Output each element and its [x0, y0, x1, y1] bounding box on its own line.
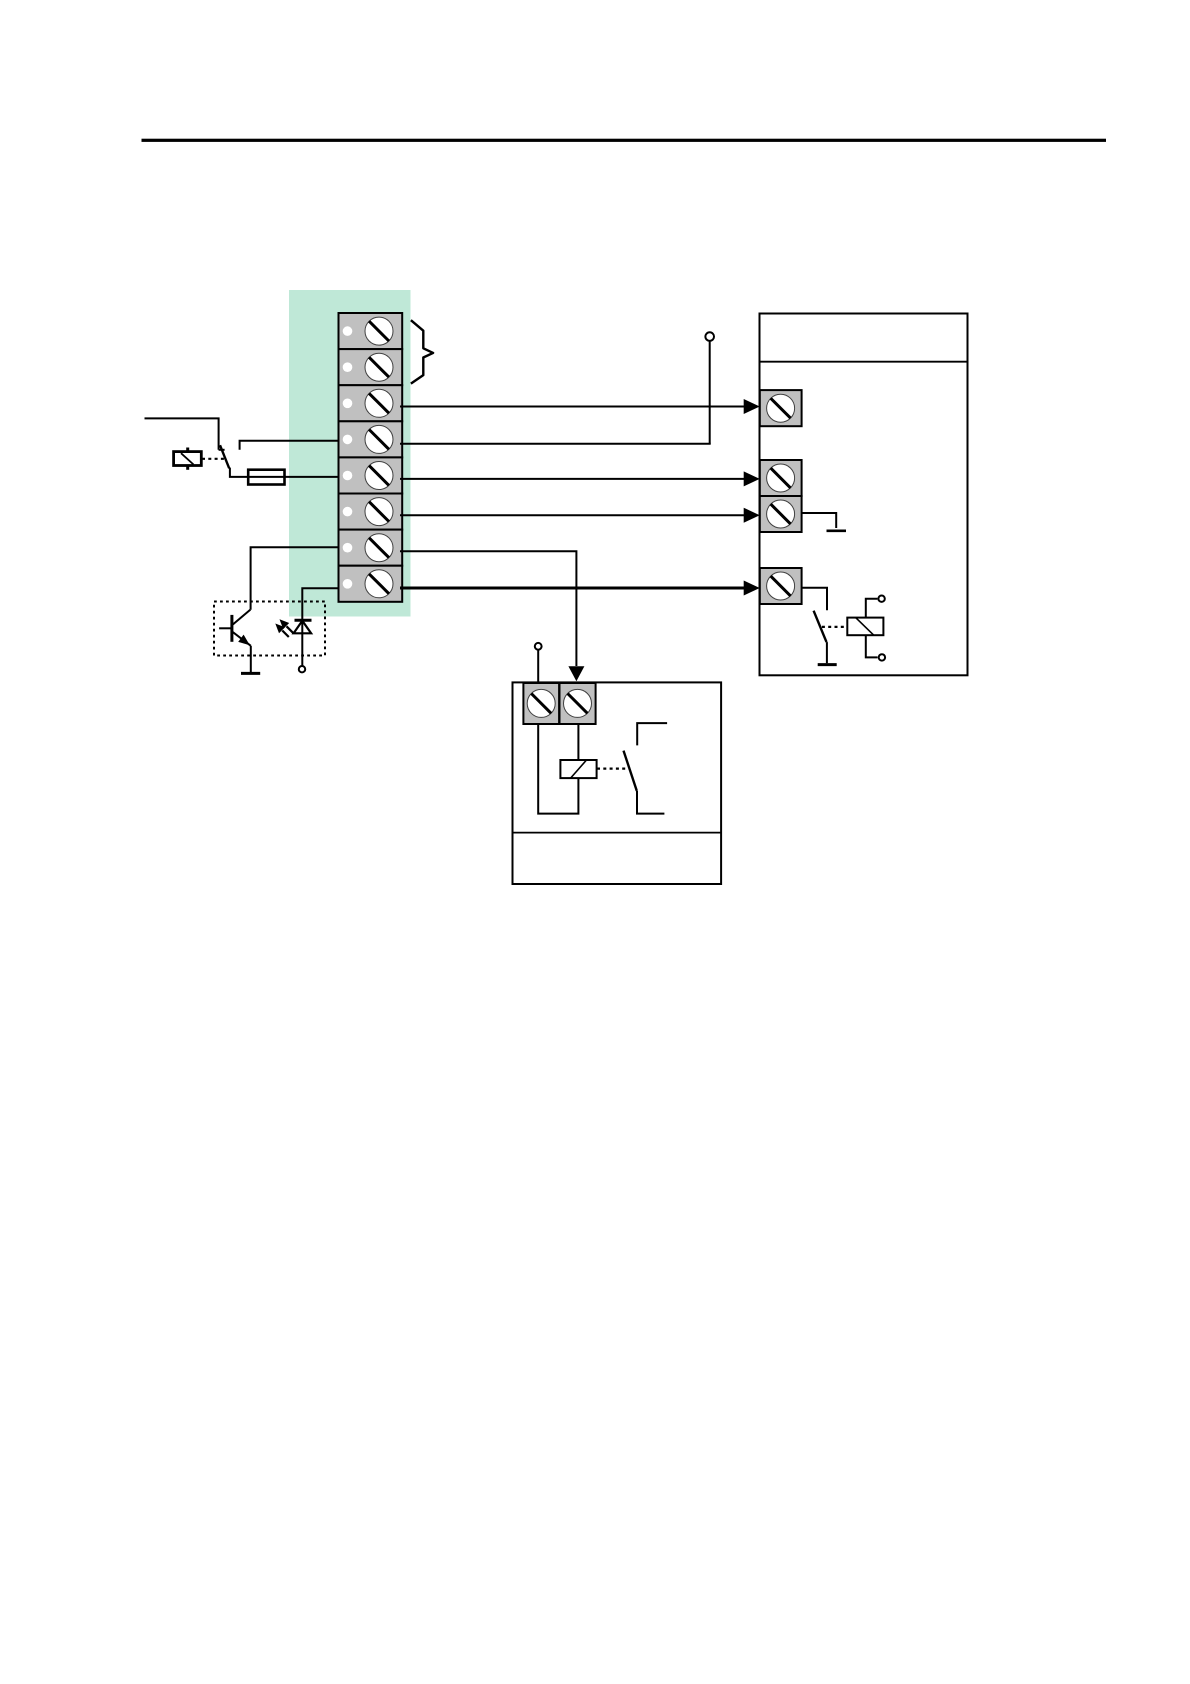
wire: K2 top to node	[866, 599, 878, 618]
wire: emitter to ground	[250, 646, 252, 673]
relay coil K1 ticks	[186, 448, 189, 452]
green highlight zone	[289, 290, 411, 617]
arrow into B2	[744, 471, 760, 486]
terminal 4 screw	[343, 425, 393, 453]
wire: terminal 6 to device terminal B3	[400, 514, 744, 516]
device terminal B2	[760, 460, 802, 496]
node: open terminal above device	[705, 332, 714, 341]
optocoupler dotted box	[214, 602, 325, 656]
device box (right)	[760, 314, 968, 676]
wire: switch S1 to fuse F1 to terminal 5	[230, 468, 340, 477]
relay contact top lead	[637, 723, 667, 745]
brace for terminals 1-2	[411, 320, 433, 383]
dotted link S2 to relay K2	[822, 626, 847, 628]
device header divider	[760, 361, 968, 363]
wire: terminal 3 to device terminal B1	[400, 406, 744, 408]
node: K2 bottom terminal	[879, 654, 885, 660]
LED light arrows	[275, 619, 293, 637]
relay coil K3	[560, 760, 596, 778]
device terminal B4	[760, 568, 802, 604]
wire: open terminal to A1	[537, 650, 539, 683]
relay coil K2	[847, 618, 883, 636]
ground at B3	[827, 529, 847, 532]
terminal 7 screw	[343, 534, 393, 562]
wire: open terminal down	[709, 341, 711, 444]
device terminal B3	[760, 496, 802, 532]
arrow into B4	[744, 581, 760, 596]
header rule	[142, 139, 1107, 142]
wire: terminal 8 to LED	[302, 588, 339, 620]
terminal 6 screw	[343, 498, 393, 526]
switch S1 fixed contact tick	[219, 449, 225, 451]
wire: terminal 4 to vertical	[400, 443, 711, 445]
wire: switch S2 to ground	[826, 642, 828, 663]
node: open terminal above A1	[535, 643, 542, 650]
node: LED open terminal	[299, 666, 305, 672]
dotted link K1 to S1	[202, 458, 224, 460]
ground at S2	[818, 663, 837, 666]
wire: K2 bottom to node	[866, 635, 878, 657]
relay terminal A2	[560, 683, 596, 724]
relay terminal A1	[523, 683, 559, 724]
arrow into B3	[744, 508, 760, 523]
LED D1	[294, 620, 312, 666]
terminal 5 screw	[343, 462, 393, 490]
relay contact blade	[624, 751, 637, 791]
terminal 8 screw	[343, 570, 393, 598]
relay coil K1	[174, 452, 202, 466]
wire: terminal 7 to bottom device	[400, 551, 576, 666]
wire: external line to switch S1 contact	[145, 418, 219, 449]
wire: NO contact to terminal 4	[240, 441, 340, 450]
relay contact bottom lead	[637, 791, 664, 814]
switch S2 blade	[814, 611, 827, 642]
switch S1 blade	[220, 445, 229, 468]
terminal 3 screw	[343, 389, 393, 417]
wire: terminal 5 to device terminal B2	[400, 478, 744, 480]
arrow into B1	[744, 399, 760, 414]
device terminal B1	[760, 390, 802, 426]
wire: terminal 8 to device terminal B4 (bold)	[400, 587, 744, 590]
relay box (bottom)	[513, 682, 722, 884]
terminal block (8 screw terminals)	[339, 313, 403, 602]
wire: A1 down and across	[538, 724, 578, 814]
dotted link K3 to contact	[597, 767, 629, 769]
wire: B3 to ground	[802, 513, 837, 528]
terminal 2 screw	[343, 353, 393, 381]
fuse F1	[248, 470, 284, 485]
terminal 1 screw	[343, 317, 393, 345]
phototransistor Q1	[219, 610, 251, 646]
wire: terminal 7 to phototransistor collector	[251, 547, 340, 610]
arrow down into bottom device	[568, 666, 584, 681]
node: K2 top terminal	[878, 596, 884, 602]
ground under emitter	[241, 672, 260, 675]
relay box divider	[513, 832, 722, 834]
wire: A2 down to coil	[577, 724, 579, 760]
wire: B4 to switch	[802, 588, 827, 610]
